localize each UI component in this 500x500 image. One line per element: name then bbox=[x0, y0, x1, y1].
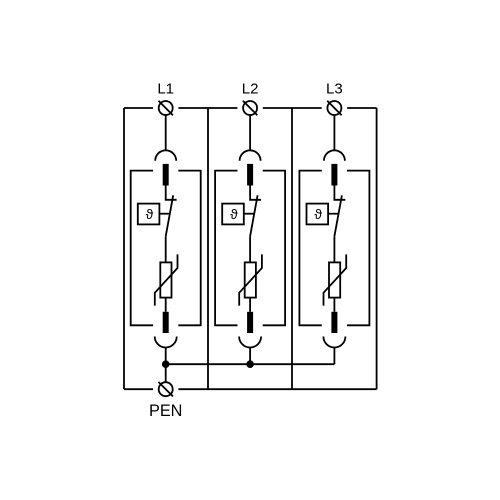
wire module 2 to PEN bus bbox=[249, 348, 251, 365]
svg-text:PEN: PEN bbox=[149, 402, 182, 420]
wire separator 1 bbox=[207, 108, 209, 389]
wire right frame edge bbox=[376, 108, 378, 389]
plug-in contact top (module 1) bbox=[155, 150, 176, 161]
thermal element F1 box bbox=[138, 204, 160, 225]
plug-in contact bottom (module 1) bbox=[155, 337, 177, 348]
thermal disconnect switch blade (module 3) bbox=[334, 195, 342, 236]
svg-text:L3: L3 bbox=[326, 81, 343, 98]
wire separator 2 bbox=[291, 108, 293, 389]
wire bottom frame edge left bbox=[124, 388, 153, 390]
wire bottom frame edge right bbox=[178, 388, 376, 390]
wire top bus L1-L2 bbox=[178, 107, 237, 109]
module 3 bottom pin bbox=[331, 312, 337, 333]
varistor RV1 body bbox=[160, 262, 171, 297]
varistor RV3 body bbox=[329, 262, 340, 297]
junction node L2-PEN bbox=[246, 360, 254, 368]
wire module 1 to PEN bus bbox=[165, 348, 167, 365]
terminal L2 slash bbox=[243, 101, 257, 115]
wire module 3 pin to switch contact bbox=[334, 186, 345, 200]
wire module 3 to PEN bus bbox=[333, 348, 335, 365]
wire module 2 pin to switch contact bbox=[250, 186, 261, 200]
wire varistor RV2 to bottom pin bbox=[249, 298, 251, 312]
thermal disconnect switch blade (module 2) bbox=[250, 195, 258, 236]
wire PEN bus to PEN terminal bbox=[165, 364, 167, 382]
module 2 bottom pin bbox=[247, 312, 253, 333]
wire module 1 pin to switch contact bbox=[166, 186, 177, 200]
junction node L1-PEN bbox=[162, 360, 170, 368]
wire left frame edge bbox=[123, 108, 125, 389]
wire L1 terminal to plug contact bbox=[165, 115, 167, 150]
svg-text:L1: L1 bbox=[157, 81, 174, 98]
module 3 enclosure box bbox=[299, 171, 369, 326]
varistor RV2 body bbox=[245, 262, 256, 297]
wire L3 terminal to plug contact bbox=[333, 115, 335, 150]
terminal L3 slash bbox=[327, 101, 341, 115]
wire thermal element F1 to blade bbox=[159, 213, 169, 215]
wire thermal element F3 to blade bbox=[328, 213, 338, 215]
terminal L3 bbox=[327, 101, 341, 115]
wire thermal element F2 to blade bbox=[244, 213, 254, 215]
terminal L1 bbox=[159, 101, 173, 115]
svg-text:L2: L2 bbox=[242, 81, 259, 98]
varistor RV2 diagonal bbox=[239, 254, 262, 305]
plug-in contact bottom (module 2) bbox=[239, 337, 261, 348]
module 2 top pin bbox=[247, 164, 253, 186]
terminal PEN bbox=[159, 382, 173, 396]
svg-text:ϑ: ϑ bbox=[230, 206, 238, 222]
wire L2 terminal to plug contact bbox=[249, 115, 251, 150]
thermal element F2 box bbox=[222, 204, 244, 225]
wire blade to varistor RV2 bbox=[249, 236, 251, 262]
varistor RV1 diagonal bbox=[155, 254, 178, 305]
svg-text:ϑ: ϑ bbox=[146, 206, 154, 222]
module 1 top pin bbox=[163, 164, 169, 186]
svg-text:ϑ: ϑ bbox=[314, 206, 322, 222]
terminal L2 bbox=[243, 101, 257, 115]
thermal disconnect switch blade (module 1) bbox=[166, 195, 174, 236]
plug-in contact top (module 3) bbox=[324, 150, 345, 161]
thermal element F3 box bbox=[307, 204, 329, 225]
terminal PEN slash bbox=[159, 382, 173, 396]
wire varistor RV3 to bottom pin bbox=[333, 298, 335, 312]
plug-in contact bottom (module 3) bbox=[323, 337, 345, 348]
wire top bus R bbox=[347, 107, 377, 109]
wire varistor RV1 to bottom pin bbox=[165, 298, 167, 312]
wire blade to varistor RV1 bbox=[165, 236, 167, 262]
wire blade to varistor RV3 bbox=[333, 236, 335, 262]
wire top bus L bbox=[124, 107, 153, 109]
module 3 top pin bbox=[331, 164, 337, 186]
module 1 enclosure box bbox=[131, 171, 201, 326]
wire PEN bus bbox=[166, 363, 335, 365]
module 2 enclosure box bbox=[215, 171, 285, 326]
wire top bus L2-L3 bbox=[263, 107, 322, 109]
plug-in contact top (module 2) bbox=[240, 150, 261, 161]
varistor RV3 diagonal bbox=[324, 254, 347, 305]
terminal L1 slash bbox=[159, 101, 173, 115]
module 1 bottom pin bbox=[163, 312, 169, 333]
